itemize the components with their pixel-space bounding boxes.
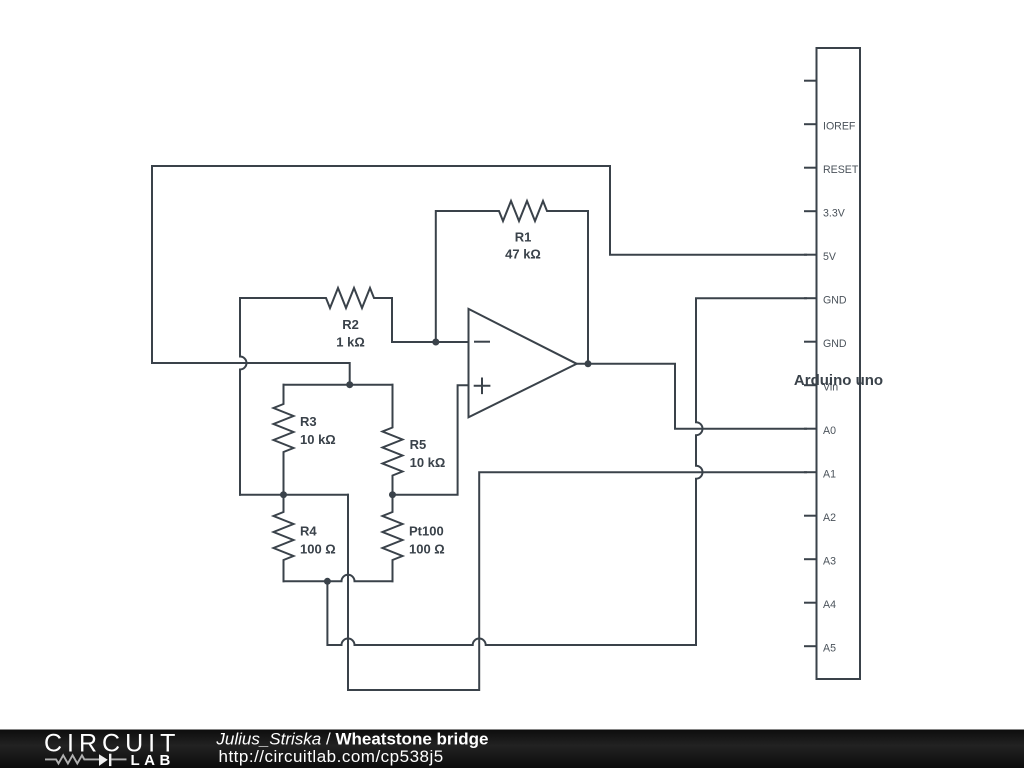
svg-text:A3: A3 (823, 555, 836, 567)
svg-text:R3: R3 (300, 414, 317, 429)
svg-text:47 kΩ: 47 kΩ (505, 247, 541, 262)
svg-text:R5: R5 (410, 437, 427, 452)
svg-text:100 Ω: 100 Ω (409, 542, 445, 557)
svg-text:10 kΩ: 10 kΩ (410, 455, 446, 470)
svg-text:IOREF: IOREF (823, 120, 856, 132)
svg-text:LAB: LAB (131, 752, 175, 768)
svg-text:A5: A5 (823, 642, 836, 654)
svg-text:RESET: RESET (823, 164, 859, 176)
svg-text:Pt100: Pt100 (409, 524, 444, 539)
svg-text:100 Ω: 100 Ω (300, 542, 336, 557)
svg-text:1 kΩ: 1 kΩ (336, 335, 365, 350)
svg-text:GND: GND (823, 294, 847, 306)
svg-text:A4: A4 (823, 599, 836, 611)
svg-text:Julius_Striska / Wheatstone br: Julius_Striska / Wheatstone bridge (215, 730, 488, 749)
svg-text:3.3V: 3.3V (823, 207, 846, 219)
svg-text:R4: R4 (300, 524, 317, 539)
svg-text:A2: A2 (823, 512, 836, 524)
svg-text:GND: GND (823, 338, 847, 350)
svg-text:http://circuitlab.com/cp538j5: http://circuitlab.com/cp538j5 (219, 747, 444, 766)
svg-text:Arduino uno: Arduino uno (794, 372, 883, 389)
svg-text:R2: R2 (342, 317, 359, 332)
svg-text:A0: A0 (823, 425, 836, 437)
svg-text:A1: A1 (823, 468, 836, 480)
svg-text:5V: 5V (823, 251, 837, 263)
svg-text:10 kΩ: 10 kΩ (300, 432, 336, 447)
svg-text:R1: R1 (515, 230, 532, 245)
